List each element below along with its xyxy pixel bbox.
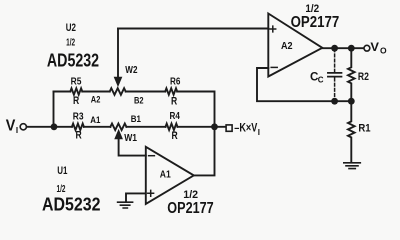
resistor R5: [70, 88, 82, 94]
terminal V_O (open circle): [364, 45, 370, 51]
wire: potentiometer B1 to R4: [126, 126, 165, 128]
svg-text:OP2177: OP2177: [167, 200, 213, 217]
junction dot: right node (-KxV_I): [211, 123, 218, 130]
resistor R2 (vertical): [348, 48, 355, 101]
svg-text:U1: U1: [57, 165, 67, 177]
terminal -KxV_I (open square): [226, 125, 232, 131]
wire: A1 noninverting input to ground: [126, 193, 146, 201]
svg-text:W1: W1: [124, 133, 137, 144]
wire: R6 to right corner, down to right node: [177, 92, 214, 127]
capacitor C_C bottom dashed lead: [334, 78, 336, 100]
wire: A2 inverting input feedback to bottom feedback rail: [257, 68, 351, 101]
junction dot: output rail at C_C: [331, 45, 338, 52]
op-amp A2 plus mark: [270, 26, 276, 32]
resistor R1 (vertical): [348, 101, 355, 162]
junction dot: output rail at R2: [348, 45, 355, 52]
svg-text:R6: R6: [170, 77, 181, 88]
wiper W2 arrowhead: [114, 77, 121, 86]
wiper W1 arrowhead: [115, 130, 122, 139]
svg-text:R: R: [76, 130, 82, 142]
capacitor C_C top dashed lead: [334, 49, 336, 71]
ground symbol (R1): [344, 163, 361, 169]
wire: top rail left segment: [54, 91, 71, 93]
svg-text:–K×V: –K×V: [234, 120, 257, 134]
wire: R5 to potentiometer A2-B2: [82, 91, 109, 93]
resistor R6: [165, 88, 177, 94]
svg-text:W2: W2: [125, 65, 138, 76]
svg-text:A1: A1: [160, 170, 171, 181]
op-amp A2 minus mark: [271, 66, 277, 68]
potentiometer A1-B1 (1/2 AD5232 U1): [110, 124, 126, 131]
wire: A2 output rail to V_O terminal: [322, 47, 364, 49]
svg-text:U2: U2: [66, 22, 76, 34]
svg-text:AD5232: AD5232: [47, 50, 99, 70]
wire: potentiometer B2 to R6: [126, 91, 166, 93]
resistor R4: [166, 124, 178, 130]
wire: A2 noninverting input from wiper W2 corner: [118, 28, 268, 30]
svg-text:O: O: [380, 46, 387, 56]
junction dot: feedback rail at C_C: [331, 98, 338, 105]
svg-text:OP2177: OP2177: [291, 14, 340, 31]
wire: right node down to A1 output: [194, 127, 215, 176]
svg-text:A2: A2: [91, 95, 101, 106]
svg-text:R5: R5: [71, 77, 82, 88]
potentiometer A2-B2 (1/2 AD5232 U2): [110, 88, 126, 95]
svg-text:AD5232: AD5232: [42, 194, 101, 214]
svg-text:R3: R3: [73, 111, 84, 122]
junction dot: left input node: [51, 123, 58, 130]
svg-text:1/2: 1/2: [183, 189, 198, 201]
svg-text:B1: B1: [131, 114, 142, 125]
svg-text:R: R: [171, 95, 177, 107]
wire: bottom rail from V_I terminal to R3: [27, 126, 72, 128]
wire: wiper W2 vertical: [117, 29, 119, 78]
svg-text:V: V: [370, 40, 379, 54]
op-amp A1 minus mark: [149, 155, 155, 157]
wire: wiper W1 to A1 inverting input: [119, 137, 146, 156]
capacitor C_C plates: [328, 73, 342, 77]
svg-text:1/2: 1/2: [66, 38, 75, 49]
wire: R4 to -KxV_I terminal: [178, 126, 226, 128]
svg-text:V: V: [6, 118, 16, 135]
wire: R3 to potentiometer A1-B1: [84, 126, 111, 128]
svg-text:R: R: [172, 130, 178, 142]
resistor R3: [72, 124, 84, 130]
ground symbol (A1 + input): [118, 202, 133, 208]
svg-text:A1: A1: [90, 115, 101, 126]
wire: left vertical joining top rail to bottom rail: [53, 92, 55, 127]
svg-text:A2: A2: [281, 41, 293, 52]
op-amp A1 triangle: [146, 147, 194, 204]
svg-text:I: I: [16, 126, 18, 135]
terminal V_I (open circle): [20, 124, 26, 130]
svg-text:R: R: [73, 95, 79, 107]
svg-text:R2: R2: [358, 71, 369, 83]
svg-text:R1: R1: [358, 122, 370, 134]
op-amp A1 plus mark: [148, 190, 154, 196]
op-amp A2 triangle: [268, 14, 322, 77]
svg-text:R4: R4: [170, 111, 181, 122]
svg-text:C: C: [318, 75, 324, 84]
svg-text:I: I: [258, 128, 260, 137]
svg-text:B2: B2: [134, 95, 144, 106]
junction dot: feedback rail at R2/R1: [348, 98, 355, 105]
